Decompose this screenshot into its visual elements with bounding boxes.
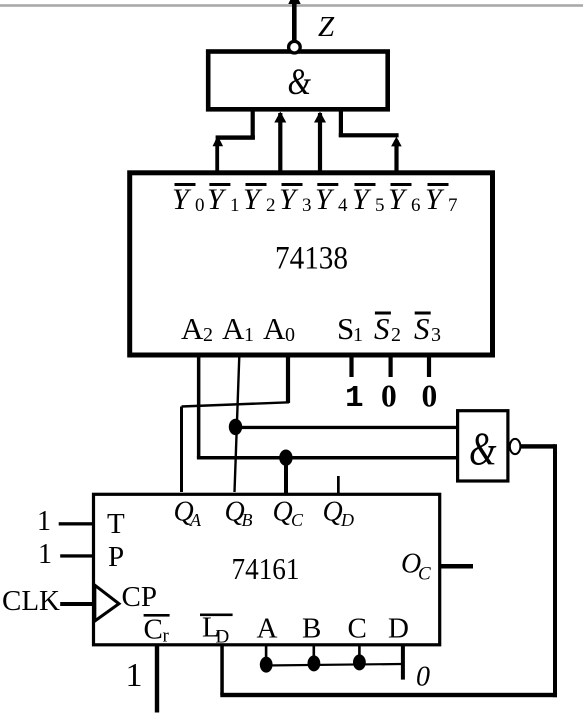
pin Y7bar label xyxy=(425,183,458,216)
svg-text:0: 0 xyxy=(416,662,430,693)
wire QC pin to junction xyxy=(284,458,288,494)
wire A0 to QA (down, slant left, down) xyxy=(180,355,290,492)
svg-text:74138: 74138 xyxy=(275,241,348,277)
junction dot B xyxy=(308,655,321,671)
op-amp U3 NAND gate box (right) xyxy=(458,411,508,481)
svg-text:74161: 74161 xyxy=(232,551,300,586)
wire A2 to QC (down then right) xyxy=(197,355,458,460)
svg-text:T: T xyxy=(107,508,125,540)
svg-text:1: 1 xyxy=(353,324,363,346)
pin A1 label xyxy=(222,311,254,346)
pin QC label xyxy=(273,497,305,531)
svg-text:CLK: CLK xyxy=(2,585,60,617)
wire Y2 to top gate (straight with arrow) xyxy=(274,112,286,173)
svg-text:5: 5 xyxy=(375,195,385,216)
svg-text:A: A xyxy=(189,510,202,530)
wire A pin stub xyxy=(265,645,268,660)
wire A1 to QB (thin slanted) xyxy=(235,356,240,492)
svg-text:C: C xyxy=(348,613,367,645)
wire ABCD common net to D xyxy=(264,664,401,666)
wire Z output with arrowhead xyxy=(288,0,300,42)
svg-text:D: D xyxy=(216,627,230,648)
wire S1 stub xyxy=(349,355,353,377)
pin S1 label xyxy=(337,311,363,346)
pin QB label xyxy=(225,497,253,531)
op-amp U1 NAND gate box (top) xyxy=(208,52,388,110)
svg-text:0: 0 xyxy=(381,379,397,414)
pin Y6bar label xyxy=(388,183,421,216)
counter U4 74161 box xyxy=(94,494,440,645)
svg-text:2: 2 xyxy=(203,324,213,346)
svg-text:1: 1 xyxy=(126,657,143,694)
svg-text:A: A xyxy=(222,311,245,346)
pin Cr-bar label xyxy=(144,614,170,647)
svg-text:B: B xyxy=(302,613,321,645)
svg-text:P: P xyxy=(108,541,124,573)
wire CLK input stub xyxy=(60,602,94,606)
pin Y2bar label xyxy=(243,183,276,216)
svg-text:1: 1 xyxy=(244,324,254,346)
wire S3 stub xyxy=(427,355,431,377)
pin S2bar label xyxy=(374,311,401,346)
svg-text:1: 1 xyxy=(230,195,240,216)
svg-text:&: & xyxy=(469,423,497,475)
pin Y0bar label xyxy=(172,183,205,216)
junction dot A xyxy=(260,657,273,673)
svg-text:D: D xyxy=(340,510,354,530)
clock edge triangle on CP xyxy=(95,585,119,621)
pin Y4bar label xyxy=(315,183,348,216)
junction QB node dot xyxy=(229,419,242,435)
decoder U2 74138 box xyxy=(130,173,493,355)
svg-text:&: & xyxy=(288,62,312,103)
pin QA label xyxy=(174,497,203,531)
svg-text:1: 1 xyxy=(345,381,364,416)
wire Y6 to top gate (right elbow with arrow) xyxy=(339,109,402,172)
pin QD label xyxy=(323,497,355,531)
wire Cr input (to 1) xyxy=(155,645,159,713)
svg-text:C: C xyxy=(144,614,163,646)
svg-text:Q: Q xyxy=(273,497,293,528)
svg-text:1: 1 xyxy=(37,506,51,537)
wire Y1 to top gate (left elbow with arrow) xyxy=(213,109,255,172)
wire Y4 to top gate (straight with arrow) xyxy=(314,112,326,173)
wire S2 stub xyxy=(389,355,393,377)
svg-text:7: 7 xyxy=(448,195,458,216)
svg-text:B: B xyxy=(242,510,253,530)
op-amp U1 NAND gate output bubble xyxy=(289,41,301,53)
svg-text:r: r xyxy=(163,626,170,647)
svg-text:0: 0 xyxy=(285,324,295,346)
pin Y3bar label xyxy=(279,183,312,216)
pin S3bar label xyxy=(414,311,441,346)
svg-text:0: 0 xyxy=(195,195,205,216)
svg-text:Z: Z xyxy=(318,11,335,43)
svg-text:S: S xyxy=(337,311,354,346)
svg-text:Q: Q xyxy=(323,497,343,528)
wire D pin stub xyxy=(401,645,405,680)
svg-text:2: 2 xyxy=(391,324,401,346)
pin Y1bar label xyxy=(207,183,240,216)
U3 output bubble xyxy=(510,439,521,454)
svg-text:1: 1 xyxy=(38,539,52,570)
svg-text:S: S xyxy=(414,311,430,346)
svg-text:C: C xyxy=(291,510,304,530)
svg-text:D: D xyxy=(388,613,409,645)
svg-text:A: A xyxy=(263,311,286,346)
pin Y5bar label xyxy=(352,183,385,216)
svg-text:3: 3 xyxy=(302,195,312,216)
svg-text:C: C xyxy=(418,564,431,585)
wire QD stub xyxy=(337,476,340,494)
wire B pin stub xyxy=(313,645,316,660)
wire U3 output feedback to LD xyxy=(220,444,557,697)
pin A2 label xyxy=(181,311,213,346)
svg-text:A: A xyxy=(181,311,204,346)
svg-text:0: 0 xyxy=(422,379,438,414)
wire C pin stub xyxy=(358,645,361,660)
junction QC node dot xyxy=(279,450,292,466)
wire T input stub xyxy=(59,522,93,525)
pin OC label xyxy=(401,549,431,585)
svg-text:3: 3 xyxy=(431,324,441,346)
svg-text:6: 6 xyxy=(411,195,421,216)
pin LD-bar label xyxy=(200,612,233,648)
svg-text:4: 4 xyxy=(338,195,348,216)
svg-text:CP: CP xyxy=(122,581,157,613)
page top gray rule xyxy=(0,4,583,7)
wire P input stub xyxy=(60,554,93,557)
wire OC output stub xyxy=(441,564,473,569)
pin A0 label xyxy=(263,311,295,346)
svg-text:S: S xyxy=(374,311,390,346)
junction dot C xyxy=(353,654,366,670)
wire QB junction to NAND U3 input xyxy=(236,426,458,429)
svg-text:A: A xyxy=(257,613,278,645)
svg-text:2: 2 xyxy=(266,195,276,216)
